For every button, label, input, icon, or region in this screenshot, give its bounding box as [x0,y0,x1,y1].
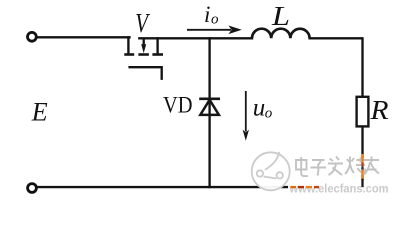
svg-text:L: L [271,1,290,31]
svg-text:i: i [204,2,210,27]
svg-text:u: u [253,95,265,122]
svg-text:R: R [369,95,389,125]
svg-text:VD: VD [163,93,193,118]
svg-text:o: o [265,106,273,122]
svg-text:E: E [31,98,48,127]
svg-text:o: o [211,12,219,28]
